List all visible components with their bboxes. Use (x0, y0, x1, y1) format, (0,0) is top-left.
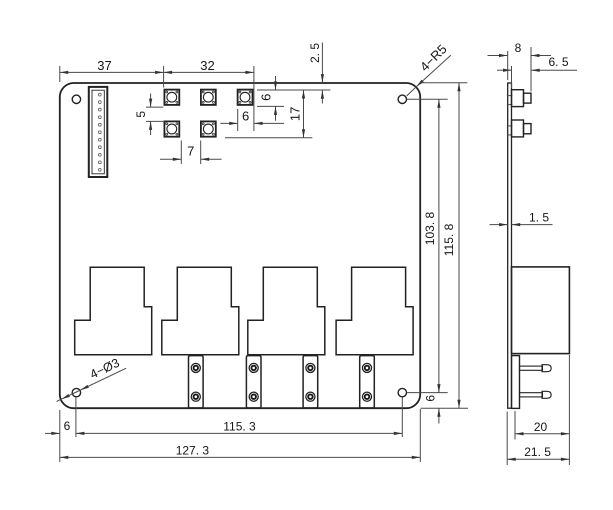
relay K2 outline (162, 267, 239, 354)
relay K4 outline (336, 267, 413, 354)
tact switch SW4 (bottom row 1) (164, 121, 179, 136)
dim 6 button height extension lines (257, 89, 330, 91)
dim 6 button width extension line (237, 109, 239, 131)
svg-text:17: 17 (287, 107, 302, 121)
dim 5 extension lines (146, 106, 163, 108)
svg-text:7: 7 (187, 143, 194, 158)
tact switch SW5 (bottom row 2) (201, 121, 216, 136)
svg-text:6. 5: 6. 5 (548, 55, 568, 69)
pad marks on pcb side (507, 95, 512, 97)
svg-text:115. 8: 115. 8 (442, 223, 456, 256)
PCB side profile (right view) (508, 83, 512, 408)
svg-text:103. 8: 103. 8 (423, 211, 437, 245)
dim 20 (515, 433, 569, 435)
terminal block TB4 with screws (360, 356, 375, 408)
terminal block TB3 with screws (303, 356, 318, 408)
dim 20 extension lines (514, 411, 516, 440)
svg-text:32: 32 (200, 58, 214, 73)
relay K1 outline (75, 267, 152, 354)
pin header connector J1 (89, 87, 108, 177)
terminal pin lower (520, 391, 552, 398)
dim 32 (164, 71, 254, 73)
svg-text:1. 5: 1. 5 (529, 211, 549, 225)
mounting hole bottom-left (72, 388, 80, 396)
right side extension lines (407, 98, 448, 100)
dim 17 extension line bottom (225, 137, 312, 139)
dim 5 (150, 94, 152, 108)
dim 32 extension line right (253, 66, 255, 131)
dim 115.3 (76, 432, 402, 434)
svg-text:37: 37 (97, 58, 111, 73)
dim 21.5 (507, 458, 569, 460)
svg-text:6: 6 (424, 395, 438, 402)
dim 6.5 extension line (511, 66, 513, 88)
terminal block TB2 with screws (246, 356, 261, 408)
mounting hole top-right (398, 95, 406, 103)
dim 115.8 (458, 83, 460, 408)
tact switch side profile upper (512, 90, 524, 107)
tact switch SW3 (top row 3) (238, 90, 253, 105)
dim 8 extension lines (507, 51, 509, 80)
dim 21.5 extension line (506, 412, 508, 466)
dim 37 extension lines (59, 66, 61, 82)
dim 17 (303, 90, 305, 138)
relay body side profile (512, 267, 570, 354)
tact switch side profile lower (512, 120, 524, 137)
svg-text:21. 5: 21. 5 (524, 445, 551, 459)
terminal pin upper (520, 365, 552, 372)
relay K3 outline (248, 267, 325, 354)
dim 127.3 (60, 456, 421, 458)
tact switch SW1 (top row 1) (164, 90, 179, 105)
svg-text:127. 3: 127. 3 (176, 443, 210, 457)
mounting hole top-left (72, 95, 80, 103)
dim 8 (488, 55, 508, 57)
svg-text:115. 3: 115. 3 (223, 420, 256, 434)
dim 6 button width (220, 122, 237, 124)
dim 6.5 (497, 69, 512, 71)
dim 6 bottom left (45, 432, 60, 434)
leader 4-dia3 at bottom-left hole (81, 368, 127, 390)
dim 2.5 (321, 43, 323, 83)
dim 6 bottom right (438, 408, 440, 423)
dim 37 (60, 71, 164, 73)
dim 103.8 (438, 99, 440, 392)
svg-text:6: 6 (242, 108, 249, 123)
mounting hole bottom-right (398, 388, 406, 396)
svg-text:6: 6 (64, 419, 71, 433)
dim 7 (160, 158, 181, 160)
svg-text:2. 5: 2. 5 (308, 43, 322, 63)
dim 6 button height (275, 76, 277, 90)
svg-text:20: 20 (534, 420, 548, 434)
terminal block side profile (512, 356, 520, 409)
PCB board outline (front view) (60, 83, 420, 408)
bottom extension lines (59, 410, 61, 462)
svg-text:6: 6 (258, 94, 273, 101)
tact switch SW2 (top row 2) (201, 90, 216, 105)
dim 7 extension lines (180, 141, 182, 165)
svg-text:5: 5 (134, 111, 148, 118)
svg-text:8: 8 (515, 41, 522, 55)
terminal block TB1 with screws (189, 356, 204, 408)
leader 4-R5 at top-right corner (416, 55, 450, 86)
dim 1.5 (490, 224, 508, 226)
